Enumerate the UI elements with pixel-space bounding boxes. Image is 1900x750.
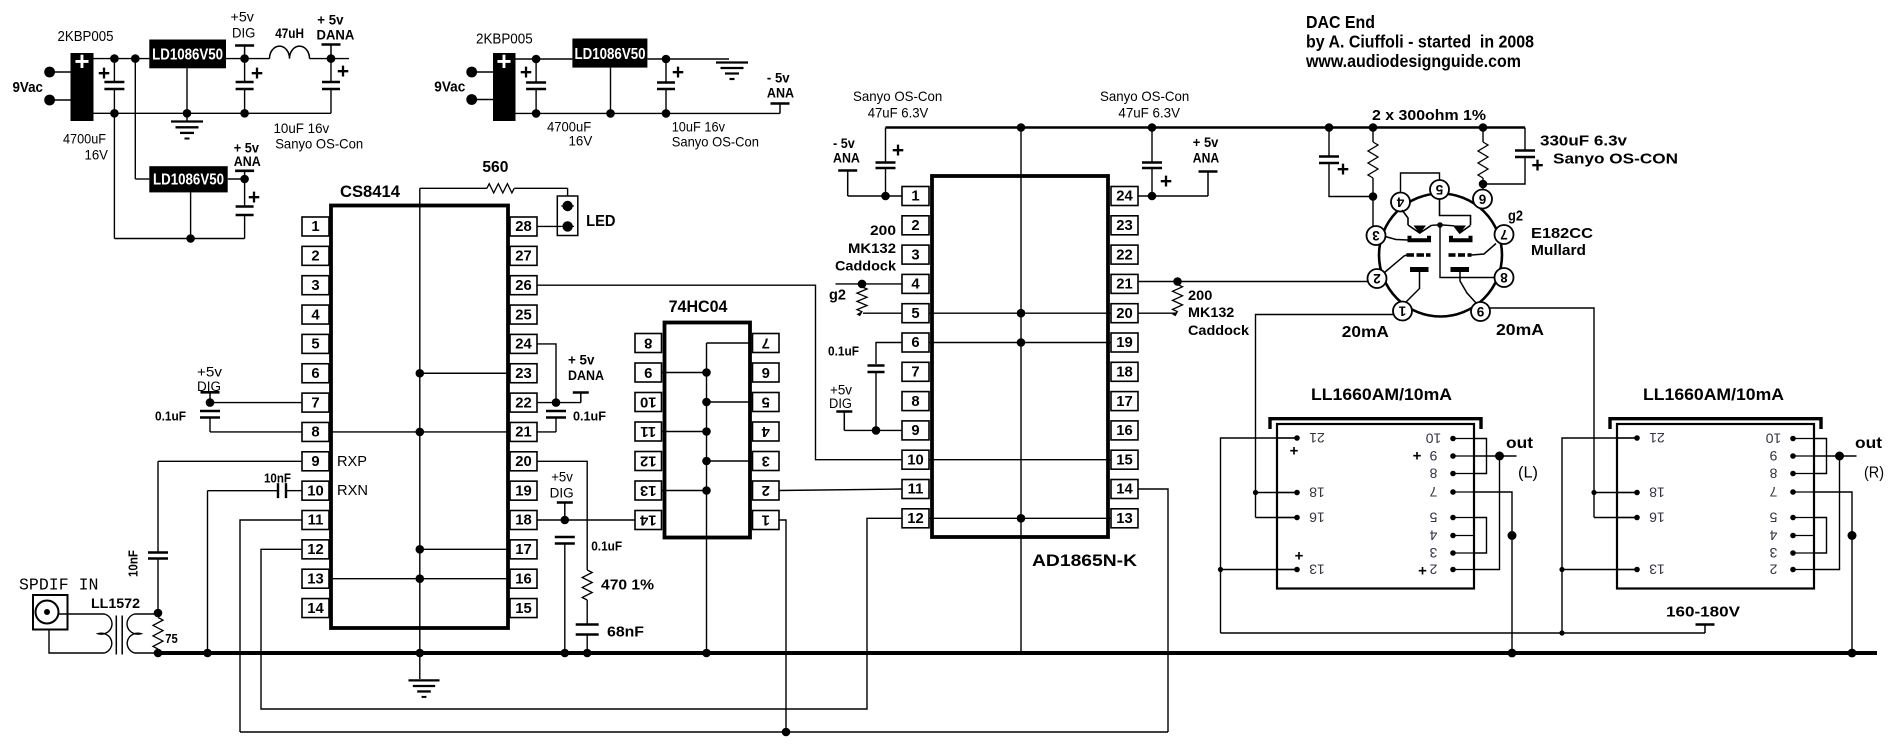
svg-text:8: 8 — [644, 334, 652, 350]
capacitor C12 47uF 6.3V — [876, 161, 896, 163]
svg-text:12: 12 — [640, 452, 656, 468]
wire U3 gnd pin down — [610, 68, 612, 114]
svg-text:7: 7 — [1500, 227, 1508, 242]
junction internal/pin 13 — [702, 486, 711, 495]
wire T2 pin16 to tube pin1 line — [1256, 517, 1298, 519]
left T pin 4 — [1453, 535, 1474, 537]
capacitor C11 0.1uF — [555, 536, 575, 538]
tube V1 pin 1 — [1393, 302, 1412, 321]
supply terminal -5v ANA — [838, 169, 857, 172]
svg-text:4: 4 — [1396, 195, 1404, 210]
svg-text:AD1865N-K: AD1865N-K — [1032, 552, 1137, 570]
wire down to ground bus — [207, 491, 209, 653]
74HC04 pin 6 — [753, 363, 780, 382]
wire tube pin3 to left plate — [1385, 237, 1407, 241]
74HC04 pin 5 — [753, 393, 780, 412]
svg-text:12: 12 — [307, 542, 323, 558]
wire tube pin4-pin5 heater jumper — [1401, 173, 1440, 193]
svg-text:22: 22 — [1116, 247, 1132, 263]
svg-text:2KBP005: 2KBP005 — [58, 29, 114, 45]
IC U6 AD1865N-K body — [932, 176, 1108, 537]
tube: right grid (g2) dashes — [1449, 253, 1456, 257]
9Vac terminal 1 (supply 2) — [466, 67, 477, 78]
svg-text:LL1572: LL1572 — [91, 595, 140, 611]
9Vac terminal 2 (supply 2) — [466, 94, 477, 105]
capacitor C3b 10uF (ANA) — [236, 205, 254, 207]
CS8414 pin 21 — [510, 422, 537, 441]
wire left out node to pin2 — [1474, 456, 1500, 570]
svg-text:0.1uF: 0.1uF — [573, 410, 606, 424]
svg-text:13: 13 — [1649, 562, 1665, 578]
wire C4 top lead — [535, 59, 537, 82]
svg-text:560: 560 — [482, 159, 508, 176]
svg-text:9Vac: 9Vac — [434, 79, 465, 96]
svg-text:3: 3 — [1429, 545, 1437, 561]
svg-text:6: 6 — [762, 364, 770, 380]
svg-text:11: 11 — [640, 423, 656, 439]
svg-text:10uF 16v: 10uF 16v — [672, 119, 725, 135]
IC U5 74HC04 body — [665, 323, 751, 538]
svg-text:Caddock: Caddock — [835, 259, 897, 274]
AD1865 pin 2 — [902, 216, 929, 235]
wire U3 out to ground symbol — [647, 58, 729, 60]
AD1865 pin 14 — [1111, 480, 1138, 499]
AD1865 pin 20 — [1111, 304, 1138, 323]
74HC04 pin 4 — [753, 422, 780, 441]
svg-text:24: 24 — [1116, 189, 1133, 205]
wire AD1865 pin14 down to bottom bus — [1138, 489, 1168, 732]
junction internal/pin 11 — [702, 427, 711, 436]
AD1865 pin 3 — [902, 245, 929, 264]
wire node to tube pin3 — [1372, 197, 1374, 227]
svg-text:470 1%: 470 1% — [601, 577, 654, 594]
AD1865 pin 8 — [902, 392, 929, 411]
right T pin 3 — [1793, 552, 1814, 554]
AD1865 pin 22 — [1111, 245, 1138, 264]
tube: right cathode — [1451, 267, 1470, 272]
node pin1/C12 — [881, 192, 890, 201]
svg-text:2: 2 — [311, 249, 319, 265]
svg-text:MK132: MK132 — [1188, 305, 1234, 320]
svg-text:3: 3 — [1372, 228, 1380, 243]
svg-text:out: out — [1506, 435, 1534, 452]
svg-text:26: 26 — [515, 278, 531, 294]
CS8414 pin 4 — [302, 305, 329, 324]
svg-text:MK132: MK132 — [848, 241, 896, 256]
svg-text:17: 17 — [1116, 394, 1132, 410]
wire BR2+ to U3 — [516, 58, 573, 60]
svg-text:+: + — [1337, 158, 1349, 181]
svg-text:6: 6 — [1478, 192, 1486, 207]
node C14/+5vDIG/pin9 — [872, 426, 881, 435]
wire 9Vac t2 to BR1 — [50, 99, 71, 101]
svg-text:+5v: +5v — [197, 365, 222, 380]
svg-text:75: 75 — [165, 631, 178, 646]
74HC04 pin 11 — [635, 422, 662, 441]
svg-text:22: 22 — [515, 395, 531, 411]
AD1865 pin 12 — [902, 509, 929, 528]
svg-text:18: 18 — [515, 513, 531, 529]
left T pin 7 — [1453, 491, 1474, 493]
svg-text:4: 4 — [1429, 528, 1437, 544]
svg-text:10nF: 10nF — [264, 472, 291, 486]
tube: left grid (g1) dashes — [1407, 253, 1415, 257]
wire C7 to secondary node — [157, 559, 159, 614]
node pin24/C13 — [1148, 192, 1157, 201]
capacitor C9 0.1uF — [546, 410, 566, 412]
wire U2 out to +5v ANA node — [228, 178, 245, 180]
74HC04 pin 8 — [635, 334, 662, 353]
svg-text:15: 15 — [1116, 452, 1132, 468]
ground symbol (supply 1) — [171, 120, 203, 122]
tube: left plate — [1410, 236, 1430, 241]
svg-text:25: 25 — [515, 307, 531, 323]
node +5v DANA — [327, 54, 336, 63]
right T pin 10 — [1793, 438, 1814, 440]
junction T2 pin21 line / pin13 — [1218, 567, 1223, 572]
svg-text:0.1uF: 0.1uF — [828, 345, 859, 359]
wire C16 bottom to pin6 node — [1483, 157, 1525, 184]
node bus/C15 — [1325, 123, 1334, 132]
capacitor C16 330uF 6.3v — [1515, 149, 1535, 151]
junction AGND line / top bus — [1017, 123, 1026, 132]
svg-text:0.1uF: 0.1uF — [155, 410, 186, 424]
74HC04 pin 14 — [635, 511, 662, 530]
wire tube pin2 to left grid — [1385, 255, 1407, 273]
svg-text:10nF: 10nF — [127, 550, 141, 577]
tube: right plate — [1451, 236, 1471, 241]
svg-text:21: 21 — [1116, 277, 1132, 293]
capacitor C3 10uF 16v — [322, 81, 340, 83]
svg-text:ANA: ANA — [1193, 150, 1219, 166]
wire C3b top lead — [244, 179, 246, 206]
capacitor C14 0.1uF — [868, 364, 885, 366]
wire bottom bus y=732 (pin11 / 74HC04 pin1 / AD1865 pin14) — [240, 731, 1168, 733]
wire internal line to pin 3 — [707, 460, 753, 462]
wire pin7 to +5vDIG node — [210, 402, 302, 404]
svg-text:7: 7 — [1769, 484, 1777, 500]
svg-text:9: 9 — [1429, 448, 1437, 464]
regulator U3 LD1086V50 — [572, 39, 647, 68]
left T pin 13 — [1277, 569, 1297, 571]
svg-text:LD1086V50: LD1086V50 — [153, 172, 224, 189]
svg-text:3: 3 — [1769, 545, 1777, 561]
svg-text:g2: g2 — [829, 287, 846, 304]
RCA center circle — [36, 601, 59, 624]
svg-text:24: 24 — [515, 337, 532, 353]
right T pin 13 — [1617, 569, 1637, 571]
right T pin 21 — [1617, 437, 1637, 439]
wire ANA return line — [114, 238, 244, 240]
wire pin9 RXP left — [158, 460, 302, 462]
svg-text:28: 28 — [515, 219, 531, 235]
left T pin 2 — [1453, 569, 1474, 571]
svg-text:7: 7 — [311, 395, 319, 411]
wire C10 to ground bus — [586, 635, 588, 654]
wire C3 bottom lead — [330, 89, 332, 113]
svg-text:RXP: RXP — [337, 453, 367, 470]
svg-text:1: 1 — [1398, 304, 1406, 319]
wire supply2 0V rail — [516, 112, 781, 114]
svg-text:+: + — [1160, 170, 1172, 193]
left T pin 8 — [1453, 473, 1474, 475]
regulator U1 LD1086V50 — [149, 40, 226, 69]
wire internal pins 8-21 — [329, 431, 510, 433]
CS8414 pin 10 — [302, 481, 329, 500]
svg-text:4: 4 — [911, 277, 920, 293]
svg-text:13: 13 — [1309, 562, 1325, 578]
wire C3b bottom lead — [244, 215, 246, 239]
CS8414 pin 14 — [302, 599, 329, 618]
svg-text:+: + — [1418, 563, 1427, 580]
svg-text:+: + — [1290, 443, 1299, 460]
wire internal line to R1 560 — [420, 187, 487, 189]
74HC04 pin 1 — [753, 511, 780, 530]
svg-text:18: 18 — [1116, 365, 1132, 381]
svg-text:7: 7 — [911, 365, 919, 381]
junction internal/pins 8-21 — [416, 428, 425, 437]
transformer T1 core — [115, 616, 117, 655]
svg-text:DANA: DANA — [568, 368, 604, 383]
svg-text:1: 1 — [311, 219, 319, 235]
svg-text:8: 8 — [1500, 270, 1508, 285]
svg-text:1: 1 — [762, 511, 770, 527]
tube: pin4 lead to left heater V — [1402, 210, 1408, 225]
wire tube pin7 to right grid — [1472, 244, 1497, 256]
svg-text:23: 23 — [1116, 218, 1132, 234]
supply terminal 160-180V — [1696, 623, 1715, 626]
wire left T pin5-pin3 jumper — [1474, 518, 1487, 554]
svg-text:5: 5 — [1429, 510, 1437, 526]
AD1865 internal pin10-pin15 line — [929, 459, 1111, 461]
junction T3 pin21 line / pin13 — [1559, 567, 1564, 572]
svg-text:13: 13 — [307, 571, 323, 587]
wire C8 left — [208, 490, 279, 492]
74HC04 pin 2 — [753, 481, 780, 500]
wire pin6 to C14 — [876, 343, 902, 365]
junction 74HC04 pin1 drop — [782, 728, 791, 737]
svg-text:8: 8 — [1769, 466, 1777, 482]
9Vac terminal 2 (supply 1) — [44, 95, 55, 106]
tube V1 pin 4 — [1391, 193, 1410, 212]
svg-text:- 5v: - 5v — [767, 70, 790, 86]
junction right / ground bus — [1848, 649, 1857, 658]
svg-text:8: 8 — [311, 425, 319, 441]
svg-text:DIG: DIG — [829, 396, 852, 411]
wire 9Vac t1 to BR1 — [50, 71, 71, 73]
AD1865 pin 21 — [1111, 274, 1138, 293]
svg-text:DIG: DIG — [550, 486, 574, 501]
AD1865 pin 7 — [902, 362, 929, 381]
svg-text:16: 16 — [1309, 510, 1325, 526]
resistor R5 200 MK132 — [1173, 285, 1183, 312]
CS8414 pin 3 — [302, 276, 329, 295]
wire C14 bottom down — [875, 372, 877, 430]
svg-text:21: 21 — [1309, 430, 1325, 446]
junction right pin7 line / pin4 — [1848, 531, 1857, 540]
svg-text:8: 8 — [1429, 466, 1437, 482]
wire center node down to pin8 — [1440, 227, 1495, 278]
svg-text:47uF 6.3V: 47uF 6.3V — [1118, 105, 1180, 121]
supply terminal +5v DIG (pin18) — [557, 501, 573, 504]
right T pin 4 — [1793, 535, 1814, 537]
svg-text:4: 4 — [761, 423, 770, 439]
svg-text:Sanyo OS-Con: Sanyo OS-Con — [275, 136, 363, 152]
svg-text:10: 10 — [1766, 431, 1782, 447]
junction T1/R3/ground bus start — [154, 649, 163, 658]
svg-text:4700uF: 4700uF — [63, 131, 106, 147]
wire R4 to pin5 — [863, 312, 902, 314]
wire internal line to pin 5 — [707, 401, 753, 403]
AD1865 pin 24 — [1111, 187, 1138, 206]
svg-text:20: 20 — [515, 454, 531, 470]
wire down to U2 input — [134, 59, 136, 179]
wire C11 to ground bus — [564, 544, 566, 654]
left T pin 9 — [1453, 455, 1474, 457]
CS8414 pin 7 — [302, 393, 329, 412]
74HC04 internal tie line — [706, 343, 708, 653]
svg-text:9Vac: 9Vac — [13, 79, 44, 96]
svg-text:+: + — [892, 139, 904, 162]
AD1865 internal pin5-pin20 line — [929, 312, 1111, 314]
svg-text:19: 19 — [1116, 335, 1132, 351]
CS8414 pin 25 — [510, 305, 537, 324]
svg-text:RXN: RXN — [337, 482, 368, 499]
wire g2 stub to pin4 — [836, 283, 903, 285]
wire U2 gnd pin down — [190, 192, 192, 238]
wire C1 top lead — [113, 59, 115, 81]
tube V1 E182CC envelope — [1379, 194, 1502, 317]
tube V1 pin 2 — [1368, 269, 1387, 288]
capacitor C5 10uF 16v — [657, 81, 675, 83]
capacitor C15 — [1319, 155, 1339, 157]
svg-text:9: 9 — [1769, 448, 1777, 464]
wire T1 secondary bottom to ground bus — [135, 652, 159, 654]
9Vac terminal 1 (supply 1) — [44, 67, 55, 78]
junction internal/pin6-19 — [1017, 338, 1026, 347]
svg-text:9: 9 — [644, 364, 652, 380]
wire T2 pin13 to junction — [1221, 569, 1298, 571]
CS8414 pin 1 — [302, 217, 329, 236]
right T pin 7 — [1793, 491, 1814, 493]
junction internal/pin 5 — [702, 398, 711, 407]
svg-text:11: 11 — [908, 482, 924, 498]
wire R2 to C10 — [586, 600, 588, 624]
svg-text:6: 6 — [911, 335, 919, 351]
wire C2 top lead — [244, 59, 246, 81]
74HC04 pin 7 — [753, 334, 780, 353]
CS8414 pin 17 — [510, 540, 537, 559]
wire C1 bottom lead — [113, 89, 115, 113]
svg-text:+: + — [248, 186, 260, 209]
node left out — [1495, 452, 1504, 461]
resistor R7 300ohm — [1478, 142, 1488, 178]
svg-text:9: 9 — [911, 423, 919, 439]
LED pin A — [561, 205, 574, 207]
svg-text:3: 3 — [762, 452, 770, 468]
svg-text:10: 10 — [1426, 431, 1442, 447]
IC U4 CS8414 body — [331, 206, 508, 629]
node rail/C1 — [110, 109, 119, 118]
AD1865 pin 13 — [1111, 509, 1138, 528]
svg-text:5: 5 — [1435, 182, 1443, 197]
wire pin18 to 74HC04 pin14 — [537, 519, 635, 521]
LED pin K — [561, 225, 574, 227]
svg-text:LD1086V50: LD1086V50 — [152, 47, 223, 64]
transformer T1 LL1572 primary coil — [98, 614, 112, 653]
junction 74HC04 line / ground bus — [702, 649, 711, 658]
wire C15 top lead — [1328, 128, 1330, 156]
junction internal/pin 9 — [702, 368, 711, 377]
wire right T pin10-pin8 jumper — [1814, 439, 1827, 474]
svg-text:47uH: 47uH — [275, 25, 304, 41]
wire C12 bottom lead — [885, 168, 887, 196]
svg-text:+ 5v: + 5v — [317, 12, 343, 28]
right T pin 8 — [1793, 473, 1814, 475]
wire BR1+ to LD1086V50 U1 — [94, 58, 150, 60]
svg-text:18: 18 — [1649, 485, 1665, 501]
wire R7 bottom lead — [1482, 178, 1484, 184]
wire 74HC04 pin2 to AD1865 pin11 — [779, 489, 902, 491]
wire pin22 to node — [537, 402, 556, 404]
junction 160-180V / T3 drop — [1559, 630, 1564, 635]
svg-text:2: 2 — [1769, 562, 1777, 578]
svg-text:10: 10 — [907, 452, 923, 468]
74HC04 pin 12 — [635, 452, 662, 471]
svg-text:330uF 6.3v: 330uF 6.3v — [1540, 133, 1628, 150]
supply terminal +5v ANA — [1199, 170, 1218, 173]
wire +5vDIG to pin9 — [844, 429, 902, 431]
wire R7 top lead — [1482, 128, 1484, 143]
wire left T pin9 to out — [1474, 455, 1517, 457]
wire main ground bus — [157, 651, 1877, 655]
svg-text:20: 20 — [1116, 306, 1132, 322]
wire pin10 RXN to C8 — [286, 490, 302, 492]
AD1865 pin 16 — [1111, 421, 1138, 440]
svg-text:16: 16 — [515, 571, 531, 587]
capacitor C2 10uF 16v — [236, 81, 254, 83]
wire node to +5vDANA terminal — [556, 402, 581, 404]
svg-text:2: 2 — [1373, 271, 1381, 286]
node BR1+/C1 — [110, 54, 119, 63]
wire RCA shield to T1 primary bottom — [49, 630, 105, 654]
inductor L1 47uH — [270, 46, 310, 59]
resistor R1 560 — [487, 184, 514, 193]
supply terminal +5v ANA — [235, 170, 254, 173]
AD1865 pin 9 — [902, 421, 929, 440]
svg-text:16V: 16V — [569, 133, 593, 149]
AD1865 pin 1 — [902, 187, 929, 206]
junction C10 / ground bus — [583, 649, 592, 658]
svg-text:CS8414: CS8414 — [340, 183, 401, 201]
LED header box — [557, 196, 578, 236]
svg-text:DIG: DIG — [232, 26, 255, 41]
svg-text:5: 5 — [762, 393, 770, 409]
wire CS8414 pin28 to LED — [537, 225, 561, 227]
capacitor C13 47uF 6.3V — [1142, 161, 1162, 163]
svg-text:47uF 6.3V: 47uF 6.3V — [868, 105, 929, 121]
svg-text:SPDIF IN: SPDIF IN — [19, 576, 99, 595]
wire internal gnd to pin 23 — [420, 372, 510, 374]
wire supply1 0V rail — [94, 112, 332, 114]
tube V1 pin 8 — [1495, 268, 1514, 287]
transformer T2 (left) — [1270, 419, 1481, 429]
svg-text:23: 23 — [515, 366, 531, 382]
supply terminal +5v DANA — [322, 43, 341, 46]
left T pin 3 — [1453, 552, 1474, 554]
svg-text:+: + — [337, 60, 349, 83]
left T pin 5 — [1453, 517, 1474, 519]
